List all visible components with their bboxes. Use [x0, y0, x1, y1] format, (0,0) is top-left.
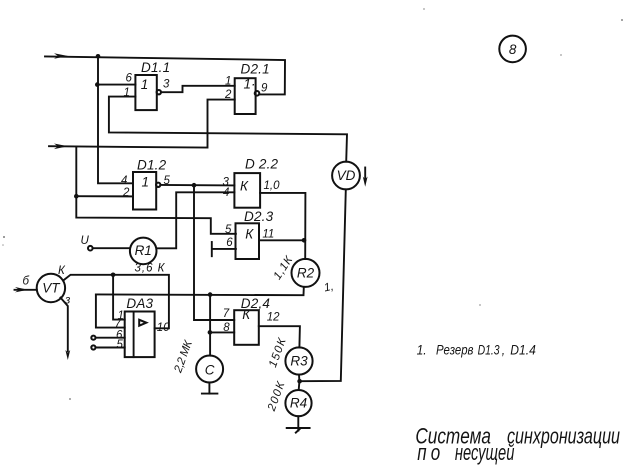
svg-text:1: 1: [141, 77, 149, 92]
svg-text:К: К: [240, 179, 249, 194]
svg-text:2: 2: [224, 89, 232, 101]
svg-text:D1.3: D1.3: [478, 342, 501, 358]
svg-text:1·: 1·: [244, 77, 256, 92]
svg-text:несущей: несущей: [455, 441, 515, 466]
svg-text:3,6 К: 3,6 К: [135, 263, 166, 275]
svg-text:12: 12: [267, 312, 280, 324]
svg-text:VD: VD: [337, 168, 356, 183]
svg-text:R3: R3: [290, 353, 308, 368]
svg-text:DA3: DA3: [126, 296, 153, 311]
svg-text:1,0: 1,0: [264, 180, 281, 192]
svg-text:2: 2: [122, 187, 130, 199]
svg-text:1: 1: [225, 76, 231, 88]
svg-text:U: U: [81, 235, 90, 247]
svg-text:3: 3: [163, 79, 170, 91]
svg-text:К: К: [245, 227, 254, 242]
svg-text:VT: VT: [42, 281, 61, 296]
svg-text:D 2.2: D 2.2: [245, 157, 279, 172]
svg-text:R1: R1: [135, 243, 152, 258]
svg-text:7: 7: [223, 308, 230, 320]
svg-text:D1.4: D1.4: [510, 342, 536, 358]
svg-text:Резерв: Резерв: [436, 342, 474, 358]
svg-text:з: з: [64, 295, 71, 307]
svg-text:4: 4: [223, 187, 229, 199]
svg-text:С: С: [205, 362, 215, 377]
svg-text:8: 8: [509, 42, 517, 57]
svg-text:синхронизации: синхронизации: [507, 425, 620, 450]
svg-text:,: ,: [502, 342, 505, 358]
svg-text:б: б: [23, 276, 30, 288]
svg-text:4: 4: [121, 175, 127, 187]
svg-text:1: 1: [124, 87, 130, 99]
svg-text:К: К: [242, 307, 251, 322]
svg-text:9: 9: [261, 83, 268, 95]
svg-text:D2.1: D2.1: [241, 62, 270, 77]
svg-text:5: 5: [164, 175, 171, 187]
svg-text:D1.2: D1.2: [137, 158, 167, 173]
svg-text:8: 8: [223, 322, 230, 334]
svg-text:10: 10: [157, 322, 170, 334]
svg-text:D2.3: D2.3: [244, 209, 274, 224]
svg-text:6: 6: [126, 73, 133, 85]
svg-text:6: 6: [226, 237, 233, 249]
svg-text:5: 5: [117, 339, 124, 351]
svg-text:5: 5: [225, 224, 232, 236]
svg-text:1: 1: [142, 175, 150, 190]
svg-text:R2: R2: [297, 265, 315, 280]
svg-text:R4: R4: [290, 396, 307, 411]
svg-text:1.: 1.: [417, 342, 427, 358]
svg-text:11: 11: [262, 228, 274, 240]
svg-text:D1.1: D1.1: [141, 60, 170, 75]
